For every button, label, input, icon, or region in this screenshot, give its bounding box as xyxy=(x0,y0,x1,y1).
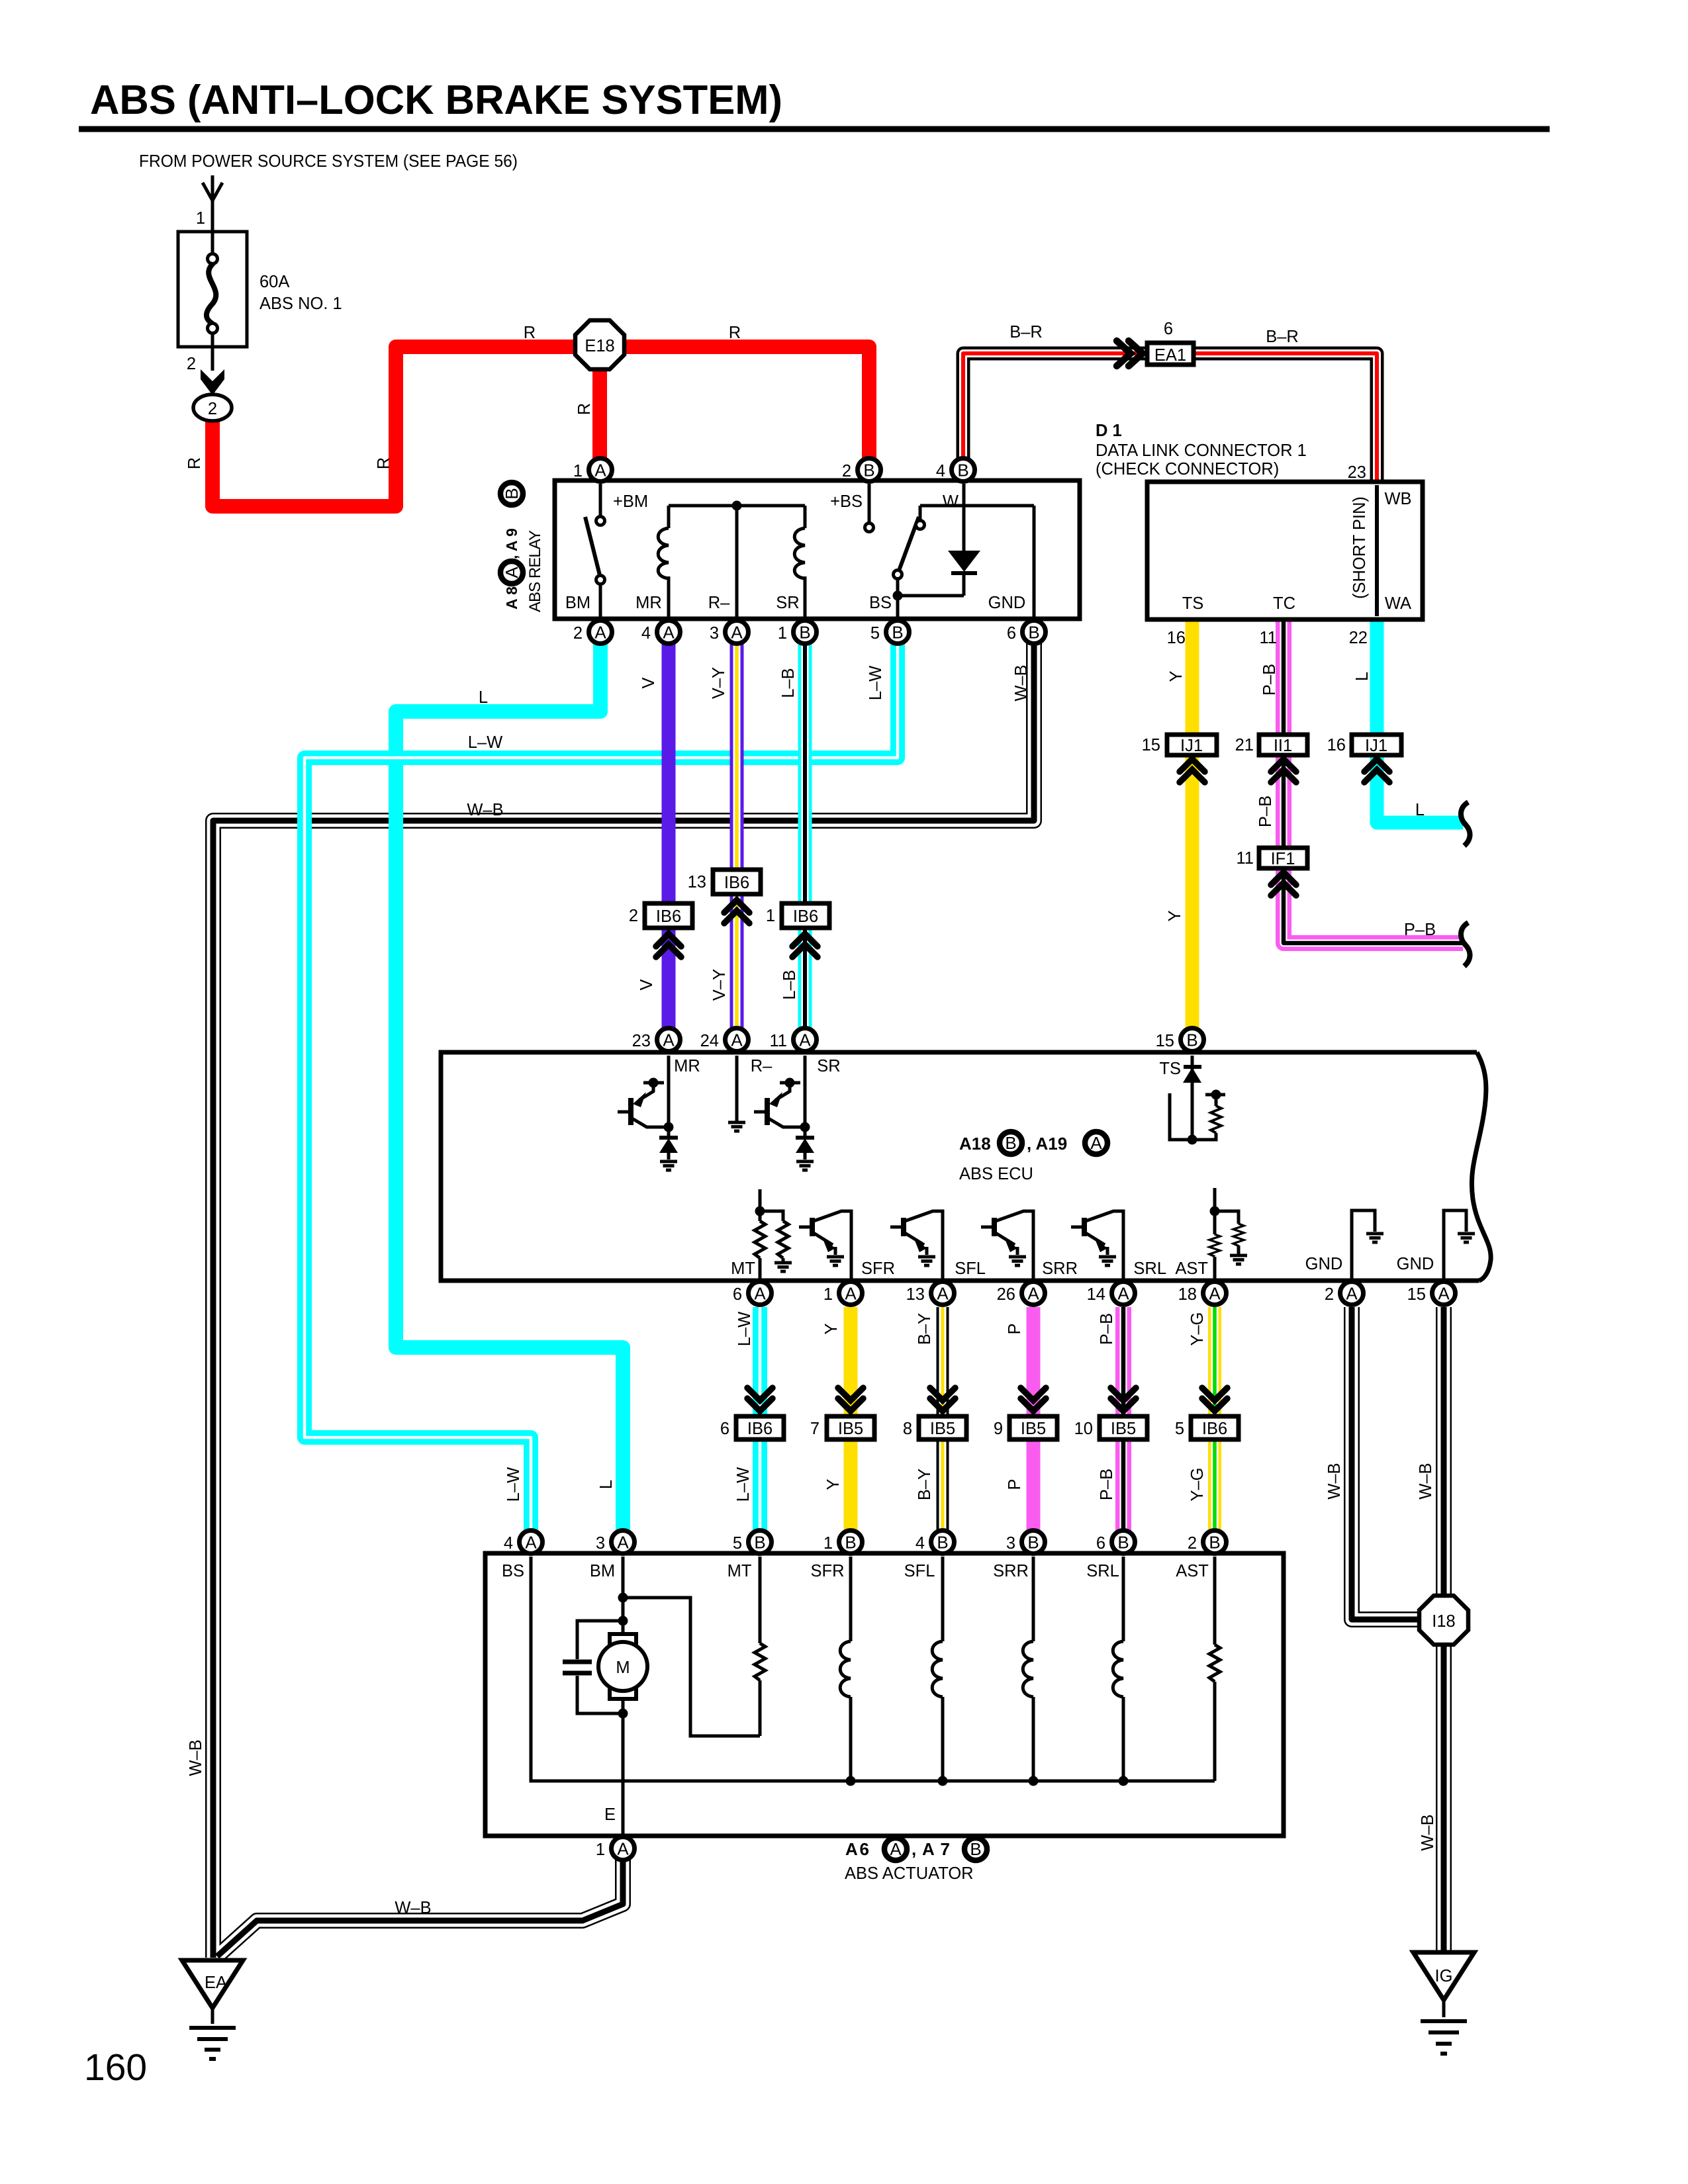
actuator internal: BS line xyxy=(531,1557,1215,1781)
actuator internal: MT resistor xyxy=(759,1557,762,1736)
svg-text:B–Y: B–Y xyxy=(915,1313,934,1345)
svg-text:(CHECK CONNECTOR): (CHECK CONNECTOR) xyxy=(1096,460,1279,478)
svg-text:IB6: IB6 xyxy=(1202,1420,1227,1438)
connector 1 IB6 xyxy=(792,934,818,957)
svg-text:, A 7: , A 7 xyxy=(912,1839,950,1859)
svg-text:L: L xyxy=(1353,672,1372,681)
svg-text:L: L xyxy=(1415,801,1425,819)
ECU internal: SRL transistor xyxy=(1071,1211,1123,1279)
svg-text:L–W: L–W xyxy=(504,1467,523,1502)
relay internal: +BS stub and contact xyxy=(865,484,874,532)
relay internal: diode under W xyxy=(948,484,980,596)
svg-text:Y: Y xyxy=(1167,670,1186,682)
wire V-Y from relay pin 3A to ECU pin 24A xyxy=(730,643,744,1028)
svg-text:ABS NO. 1: ABS NO. 1 xyxy=(259,295,342,313)
svg-text:+BM: +BM xyxy=(613,492,648,511)
chevron into 9 IB5 xyxy=(1021,1388,1046,1411)
svg-text:13: 13 xyxy=(906,1285,925,1304)
svg-text:IJ1: IJ1 xyxy=(1365,737,1387,755)
wire L-W from ECU pin 6A to actuator pin MT xyxy=(753,1307,767,1531)
ECU internal: R- to ground xyxy=(735,1056,739,1121)
svg-text:Y–G: Y–G xyxy=(1188,1312,1207,1345)
chevron into 5 IB6 xyxy=(1202,1388,1227,1411)
svg-text:L–W: L–W xyxy=(867,666,885,700)
relay header rotated: A 8 (A), A 9 (B) xyxy=(500,482,523,610)
svg-text:P–B: P–B xyxy=(1404,921,1436,939)
svg-text:R: R xyxy=(524,324,536,342)
svg-text:SR: SR xyxy=(776,594,799,612)
ECU internal: GND 2 xyxy=(1444,1210,1466,1279)
wire P-B from DLC1 TC via II1, IF1, to break xyxy=(1284,618,1463,943)
svg-text:IB6: IB6 xyxy=(724,874,749,892)
svg-text:11: 11 xyxy=(1260,629,1277,647)
ECU internal: SRR transistor xyxy=(981,1211,1033,1279)
junction dot BS xyxy=(893,591,903,601)
ECU box outline xyxy=(441,1052,1479,1281)
svg-text:P–B: P–B xyxy=(1260,664,1279,696)
svg-text:Y–G: Y–G xyxy=(1188,1467,1207,1501)
svg-text:24: 24 xyxy=(700,1032,719,1050)
ECU internal: MR transistor and diode xyxy=(618,1056,669,1138)
ECU internal: SFL transistor xyxy=(890,1211,943,1279)
DLC1 short pin line xyxy=(1375,485,1379,616)
svg-text:SRL: SRL xyxy=(1086,1562,1119,1580)
svg-text:BM: BM xyxy=(565,594,590,612)
svg-text:L–B: L–B xyxy=(780,970,799,999)
svg-text:GND: GND xyxy=(1305,1255,1343,1273)
svg-text:R–: R– xyxy=(708,594,730,612)
svg-text:E18: E18 xyxy=(585,337,614,355)
svg-text:P–B: P–B xyxy=(1098,1313,1116,1345)
svg-text:P: P xyxy=(1006,1479,1024,1490)
wire Y-G from ECU pin 18A to actuator pin AST xyxy=(1208,1307,1221,1531)
svg-text:9: 9 xyxy=(994,1420,1003,1438)
svg-text:6: 6 xyxy=(1007,624,1016,643)
svg-text:1: 1 xyxy=(196,209,205,228)
svg-text:BS: BS xyxy=(502,1562,524,1580)
svg-text:4: 4 xyxy=(641,624,651,643)
ECU internal: MT resistors xyxy=(760,1189,783,1279)
svg-text:SRR: SRR xyxy=(993,1562,1029,1580)
ECU internal: SFR transistor xyxy=(799,1211,851,1279)
svg-text:5: 5 xyxy=(733,1534,742,1553)
svg-text:W–B: W–B xyxy=(187,1739,205,1776)
svg-text:23: 23 xyxy=(632,1032,651,1050)
ECU wavy right edge xyxy=(1472,1052,1491,1281)
svg-text:5: 5 xyxy=(870,624,880,643)
svg-text:AST: AST xyxy=(1175,1259,1208,1278)
connector octagon E18 xyxy=(575,320,624,369)
svg-text:MR: MR xyxy=(635,594,662,612)
svg-text:3: 3 xyxy=(710,624,719,643)
svg-text:16: 16 xyxy=(1327,736,1346,754)
break squiggle on P-B wire xyxy=(1461,923,1470,966)
svg-text:IB6: IB6 xyxy=(747,1420,773,1438)
svg-text:11: 11 xyxy=(770,1032,787,1050)
chevron into IF1 (11) xyxy=(1271,872,1296,895)
svg-text:MT: MT xyxy=(727,1562,752,1580)
svg-text:GND: GND xyxy=(988,594,1026,612)
svg-text:DATA LINK CONNECTOR 1: DATA LINK CONNECTOR 1 xyxy=(1096,441,1307,460)
actuator internal: SFL coil xyxy=(941,1557,945,1781)
svg-text:IF1: IF1 xyxy=(1271,850,1295,868)
svg-text:MR: MR xyxy=(674,1057,700,1075)
wire R from fuse via E18 to relay pins xyxy=(212,347,869,506)
svg-text:16: 16 xyxy=(1167,629,1186,647)
svg-text:6: 6 xyxy=(1096,1534,1105,1553)
svg-text:2: 2 xyxy=(1325,1285,1334,1304)
wire W-B net: ECU GND pins 2A and 15A via I18 to IG ground xyxy=(1352,1307,1444,1954)
svg-text:L–W: L–W xyxy=(468,733,502,752)
actuator internal: BM line with junctions xyxy=(622,1557,625,1836)
svg-text:L: L xyxy=(597,1480,616,1489)
ground IG xyxy=(1413,1952,1474,2054)
svg-text:IJ1: IJ1 xyxy=(1180,737,1203,755)
svg-text:22: 22 xyxy=(1349,629,1368,647)
svg-text:W–B: W–B xyxy=(395,1899,431,1917)
svg-text:EA1: EA1 xyxy=(1154,346,1186,365)
svg-text:IB6: IB6 xyxy=(656,907,681,926)
svg-text:SRR: SRR xyxy=(1042,1259,1078,1278)
svg-text:Y: Y xyxy=(824,1479,843,1490)
svg-text:W–B: W–B xyxy=(467,801,503,819)
svg-text:B–R: B–R xyxy=(1009,323,1043,341)
svg-text:5: 5 xyxy=(1175,1420,1184,1438)
svg-text:M: M xyxy=(616,1659,630,1677)
wire P-B from ECU pin 14A to actuator pin SRL xyxy=(1115,1307,1131,1531)
svg-text:60A: 60A xyxy=(259,273,289,291)
fuse 60A ABS NO.1 box xyxy=(178,232,247,347)
svg-text:R: R xyxy=(375,457,393,469)
svg-text:13: 13 xyxy=(688,873,706,891)
svg-text:AST: AST xyxy=(1176,1562,1209,1580)
svg-text:, A 9: , A 9 xyxy=(503,528,520,559)
relay internal: GND link xyxy=(920,506,1034,631)
svg-text:L–W: L–W xyxy=(734,1467,753,1502)
relay box xyxy=(555,480,1080,619)
svg-text:B–Y: B–Y xyxy=(915,1469,934,1500)
wire B-R from relay pin 4B to EA1 to DLC1 pin 23 xyxy=(963,353,1377,483)
svg-text:TC: TC xyxy=(1273,594,1295,613)
svg-text:B–R: B–R xyxy=(1266,328,1299,346)
svg-text:P: P xyxy=(1006,1323,1024,1334)
svg-text:7: 7 xyxy=(810,1420,820,1438)
svg-text:1: 1 xyxy=(823,1534,833,1553)
svg-text:P–B: P–B xyxy=(1256,796,1275,827)
chevron into 7 IB5 xyxy=(838,1388,863,1411)
svg-text:W: W xyxy=(943,492,959,511)
svg-text:1: 1 xyxy=(778,624,787,643)
svg-text:160: 160 xyxy=(84,2046,147,2089)
svg-text:L–B: L–B xyxy=(779,668,798,698)
wire V from relay pin 4A to ECU pin 23A xyxy=(662,643,676,1028)
wire R from E18 down to relay pin 1A xyxy=(592,351,607,459)
actuator internal: motor M xyxy=(610,1634,636,1645)
svg-text:2: 2 xyxy=(573,624,583,643)
svg-text:1: 1 xyxy=(823,1285,833,1304)
chevron into IJ1 (16) xyxy=(1364,759,1389,782)
ECU internal: GND 1 xyxy=(1352,1210,1375,1279)
actuator internal: capacitor branch xyxy=(577,1621,623,1659)
svg-text:4: 4 xyxy=(936,462,945,480)
svg-text:ABS RELAY: ABS RELAY xyxy=(526,530,544,612)
svg-text:IB5: IB5 xyxy=(1111,1420,1136,1438)
svg-text:W–B: W–B xyxy=(1417,1463,1435,1499)
svg-text:EA: EA xyxy=(205,1974,227,1992)
svg-text:ABS (ANTI–LOCK BRAKE SYSTEM): ABS (ANTI–LOCK BRAKE SYSTEM) xyxy=(90,77,782,123)
svg-text:A 6: A 6 xyxy=(845,1839,869,1859)
svg-text:TS: TS xyxy=(1159,1060,1181,1078)
svg-text:L–W: L–W xyxy=(735,1312,754,1346)
svg-text:SRL: SRL xyxy=(1133,1259,1166,1278)
svg-text:Y: Y xyxy=(822,1323,841,1334)
relay internal: R- link xyxy=(669,506,805,631)
chevron into II1 (21) xyxy=(1271,759,1296,782)
svg-text:W–B: W–B xyxy=(1012,664,1031,701)
chevron into 10 IB5 xyxy=(1111,1388,1136,1411)
svg-text:L: L xyxy=(479,688,488,707)
chevron into 6 IB6 xyxy=(747,1388,773,1411)
svg-text:R: R xyxy=(185,457,204,469)
svg-text:8: 8 xyxy=(903,1420,912,1438)
svg-text:MT: MT xyxy=(731,1259,755,1278)
svg-text:R–: R– xyxy=(751,1057,773,1075)
relay internal: coil SR xyxy=(794,506,805,631)
svg-text:FROM POWER SOURCE SYSTEM (SEE: FROM POWER SOURCE SYSTEM (SEE PAGE 56) xyxy=(139,152,518,171)
ECU internal: SR transistor and diode xyxy=(754,1056,805,1138)
svg-text:11: 11 xyxy=(1237,849,1254,868)
wire B-Y from ECU pin 13A to actuator pin SFL xyxy=(937,1307,949,1531)
svg-text:1: 1 xyxy=(766,907,775,925)
chevron arrows into EA1 xyxy=(1117,341,1143,366)
wire P from ECU pin 26A to actuator pin SRR xyxy=(1027,1307,1041,1531)
svg-text:SFL: SFL xyxy=(955,1259,986,1278)
chevron into 8 IB5 xyxy=(930,1388,955,1411)
svg-text:IG: IG xyxy=(1435,1967,1453,1985)
connector 13 IB6 xyxy=(724,900,749,923)
svg-text:SFR: SFR xyxy=(811,1562,845,1580)
junction dot on R- link xyxy=(732,501,742,511)
relay internal: switch BS blade xyxy=(894,506,964,631)
svg-text:4: 4 xyxy=(504,1534,513,1553)
svg-text:14: 14 xyxy=(1087,1285,1105,1304)
svg-text:I18: I18 xyxy=(1432,1612,1455,1631)
solid arrow to connector 2 xyxy=(201,369,224,395)
chevron into IJ1 (15) xyxy=(1180,759,1205,782)
svg-text:ABS ACTUATOR: ABS ACTUATOR xyxy=(845,1864,974,1883)
actuator internal: SRL coil xyxy=(1122,1557,1125,1781)
DLC1 box xyxy=(1147,482,1423,619)
svg-text:V: V xyxy=(639,677,658,688)
wire L from DLC1 WA via IJ1 to break xyxy=(1377,618,1463,823)
svg-text:26: 26 xyxy=(997,1285,1015,1304)
actuator internal: SRR coil xyxy=(1032,1557,1035,1781)
title rule xyxy=(79,126,1550,132)
break squiggle on L wire xyxy=(1461,802,1470,846)
svg-text:BM: BM xyxy=(590,1562,615,1580)
svg-text:SFR: SFR xyxy=(861,1259,895,1278)
svg-text:21: 21 xyxy=(1235,736,1254,754)
actuator internal: AST resistor xyxy=(1213,1557,1217,1781)
svg-text:SR: SR xyxy=(817,1057,840,1075)
svg-text:2: 2 xyxy=(842,462,851,480)
svg-text:15: 15 xyxy=(1142,736,1160,754)
svg-text:(SHORT PIN): (SHORT PIN) xyxy=(1350,496,1369,599)
svg-text:10: 10 xyxy=(1074,1420,1093,1438)
actuator internal: branch BM to MT resistor bottom xyxy=(623,1598,760,1736)
wire L from relay pin 2A to actuator pin BM xyxy=(396,643,623,1531)
svg-text:1: 1 xyxy=(573,462,583,480)
svg-text:WA: WA xyxy=(1385,594,1411,613)
svg-text:II1: II1 xyxy=(1274,737,1292,755)
svg-text:V: V xyxy=(637,979,656,990)
svg-text:15: 15 xyxy=(1407,1285,1426,1304)
wire W-B net: relay GND pin 6B and actuator pin E to EA ground xyxy=(213,642,1034,1958)
svg-text:IB5: IB5 xyxy=(1021,1420,1046,1438)
relay internal: coil MR xyxy=(658,506,669,631)
connector box EA1 xyxy=(1147,343,1194,365)
svg-text:4: 4 xyxy=(915,1534,925,1553)
actuator internal: SFR coil xyxy=(849,1557,853,1781)
actuator box xyxy=(485,1553,1284,1836)
connector 2 IB6 xyxy=(656,934,681,957)
svg-text:6: 6 xyxy=(720,1420,729,1438)
svg-text:18: 18 xyxy=(1178,1285,1197,1304)
svg-text:W–B: W–B xyxy=(1325,1463,1344,1499)
svg-text:BS: BS xyxy=(869,594,892,612)
svg-text:IB6: IB6 xyxy=(793,907,818,926)
svg-text:23: 23 xyxy=(1348,463,1366,482)
svg-text:Y: Y xyxy=(1166,910,1184,921)
svg-text:15: 15 xyxy=(1156,1032,1174,1050)
svg-text:IB5: IB5 xyxy=(930,1420,955,1438)
relay internal: switch BM xyxy=(585,484,605,631)
svg-text:+BS: +BS xyxy=(830,492,863,511)
svg-text:TS: TS xyxy=(1182,594,1204,613)
svg-text:IB5: IB5 xyxy=(838,1420,863,1438)
svg-text:6: 6 xyxy=(1164,320,1173,338)
svg-text:1: 1 xyxy=(596,1841,605,1859)
svg-text:3: 3 xyxy=(596,1534,605,1553)
svg-text:2: 2 xyxy=(629,907,638,925)
svg-text:R: R xyxy=(575,403,594,415)
svg-text:2: 2 xyxy=(1188,1534,1197,1553)
svg-text:6: 6 xyxy=(733,1285,742,1304)
svg-text:V–Y: V–Y xyxy=(710,969,729,1001)
svg-text:E: E xyxy=(604,1805,616,1824)
svg-text:P–B: P–B xyxy=(1098,1469,1116,1500)
wire Y from DLC1 TS to ECU pin 15B xyxy=(1186,618,1199,1028)
svg-text:3: 3 xyxy=(1006,1534,1015,1553)
svg-text:, A19: , A19 xyxy=(1027,1134,1067,1154)
svg-text:D 1: D 1 xyxy=(1096,422,1122,440)
svg-text:ABS ECU: ABS ECU xyxy=(959,1165,1033,1183)
svg-text:2: 2 xyxy=(187,355,196,373)
harness continuation arrow at top xyxy=(203,175,222,232)
svg-text:2: 2 xyxy=(208,400,217,418)
svg-text:SFL: SFL xyxy=(904,1562,935,1580)
svg-text:A18: A18 xyxy=(959,1134,991,1154)
ECU internal: AST resistors xyxy=(1215,1188,1239,1279)
svg-text:R: R xyxy=(729,324,741,342)
ground EA xyxy=(182,1960,243,2059)
svg-text:WB: WB xyxy=(1384,490,1411,508)
fuse element symbol xyxy=(207,232,218,371)
wire L-W from relay pin 5B to actuator pin BS xyxy=(305,643,898,1531)
svg-text:W–B: W–B xyxy=(1419,1814,1437,1850)
oval connector 2 xyxy=(193,394,232,421)
wire L-B from relay pin 1B to ECU pin 11A xyxy=(798,643,812,1028)
connector octagon I18 xyxy=(1419,1596,1468,1645)
svg-text:GND: GND xyxy=(1397,1255,1434,1273)
svg-text:V–Y: V–Y xyxy=(710,667,728,699)
wire Y from ECU pin 1A to actuator pin SFR xyxy=(844,1307,858,1531)
svg-text:A 8: A 8 xyxy=(503,586,520,610)
